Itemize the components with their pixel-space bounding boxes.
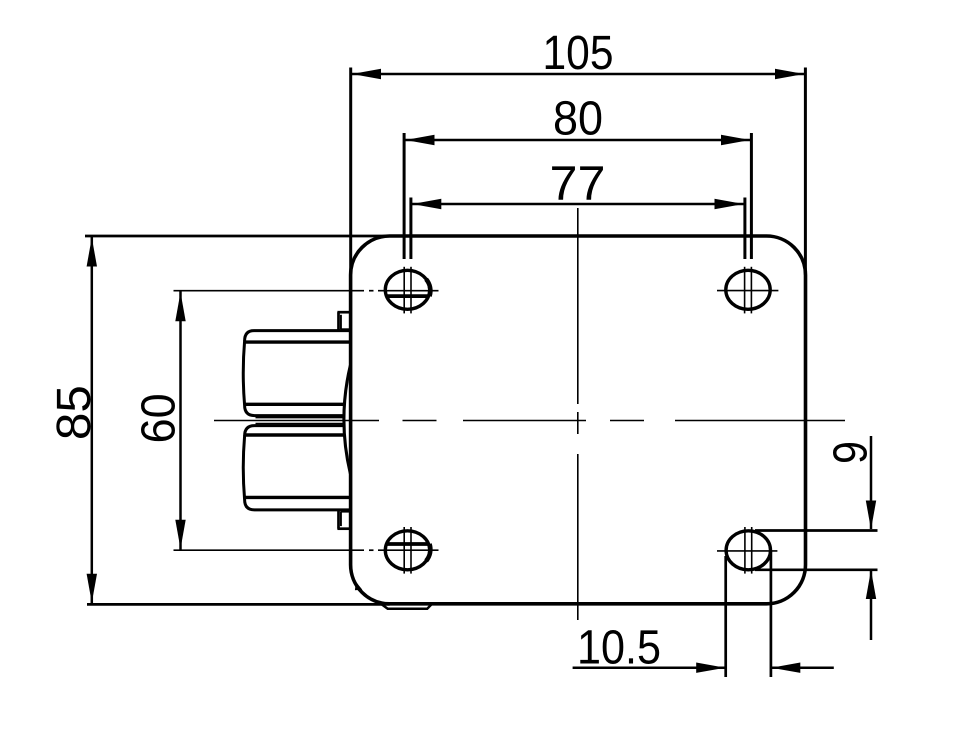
wheel lower half outline <box>243 426 350 510</box>
horizontal centerline <box>214 420 845 422</box>
77 dim line <box>411 203 745 206</box>
10.5 dim <box>573 666 725 669</box>
hole centerline bottom-right <box>717 550 777 552</box>
bracket tab bottom <box>337 509 350 528</box>
hole crosshair verticals bottom-left <box>404 527 411 574</box>
85 dim line <box>91 236 94 604</box>
wheel upper tread bottom line <box>245 403 344 406</box>
60-dim extension bottom / hole centerline bottom-left <box>174 549 439 551</box>
105 dim line <box>351 73 806 76</box>
60-dim extension top / hole centerline top-left <box>174 290 439 292</box>
svg-text:105: 105 <box>543 27 614 80</box>
hole centerline top-right <box>717 290 778 292</box>
hole crosshair verticals top-left <box>404 267 411 314</box>
10.5 extension lines <box>724 556 727 677</box>
wheel inner rim line lower <box>256 423 345 425</box>
hole bottom-right <box>726 531 770 570</box>
wheel lower tread bottom line <box>245 496 351 499</box>
105 extension line right <box>804 68 807 276</box>
hole bottom-left <box>385 531 430 570</box>
60 dim line <box>179 291 182 551</box>
arrowhead on bottom-left corner arc <box>355 582 362 590</box>
105 extension line left <box>349 68 352 275</box>
bracket tab top <box>337 312 350 330</box>
wheel crown arc at plate edge <box>344 366 350 474</box>
wheel lower tread top line <box>245 433 344 436</box>
wheel inner rim line upper <box>256 417 345 419</box>
80 extension lines <box>403 133 406 259</box>
svg-text:9: 9 <box>825 441 878 464</box>
77 extension lines <box>409 198 412 260</box>
vertical centerline <box>577 208 579 620</box>
svg-text:10.5: 10.5 <box>577 622 661 675</box>
hole top-right <box>726 270 770 309</box>
svg-text:80: 80 <box>553 93 603 146</box>
80 dim line <box>404 139 752 142</box>
hole crosshair verticals top-right <box>745 267 752 314</box>
svg-text:85: 85 <box>48 385 101 440</box>
svg-text:60: 60 <box>133 393 186 443</box>
plate outline <box>351 236 806 604</box>
hole top-left <box>385 270 430 309</box>
9 extension lines <box>755 529 878 532</box>
bracket lip below plate <box>382 605 431 609</box>
85 extension lines <box>85 235 392 238</box>
9 dim <box>870 436 873 529</box>
wheel upper half outline <box>243 331 350 416</box>
hole crosshair verticals bottom-right <box>745 527 752 574</box>
svg-text:77: 77 <box>550 158 606 211</box>
wheel upper tread top line <box>245 340 351 343</box>
